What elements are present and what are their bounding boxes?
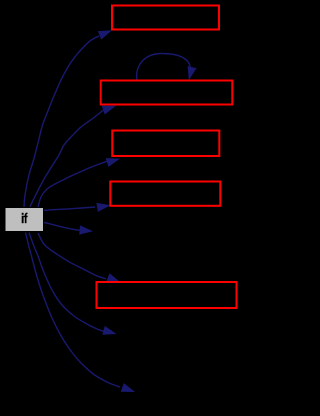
edge if->hidden node C xyxy=(26,233,136,393)
edge if->node4 xyxy=(44,203,111,212)
edge if->hidden node A xyxy=(44,222,94,234)
edge node2->node2 (self loop) xyxy=(137,54,197,81)
node5 box xyxy=(97,282,237,308)
node3 box xyxy=(112,131,219,157)
edge if->node5 xyxy=(38,233,121,282)
edge if->hidden node B xyxy=(29,233,117,335)
edge if->node3 xyxy=(38,158,120,207)
node2 box xyxy=(101,81,233,105)
edge if->node1 xyxy=(24,30,112,207)
edge if->node2 xyxy=(30,106,116,207)
node if (current) xyxy=(5,208,44,232)
node4 box xyxy=(110,182,220,206)
node1 box xyxy=(112,6,219,30)
